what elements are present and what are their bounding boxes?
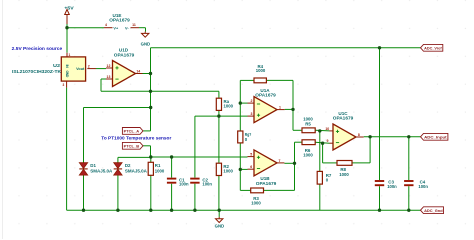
- wire C2 top: [194, 116, 196, 178]
- wire U1B -in: [240, 168, 247, 170]
- junction U1C feedback: [368, 135, 371, 138]
- wire C2 bottom: [194, 184, 196, 211]
- wire U1B out: [284, 162, 294, 164]
- svg-text:SMAJ5.0A: SMAJ5.0A: [90, 168, 113, 173]
- svg-text:PTCL_A: PTCL_A: [124, 129, 140, 134]
- wire Vref top bus: [151, 47, 422, 49]
- wire Vref down to C3: [379, 48, 381, 180]
- resistor R8: [337, 161, 352, 166]
- junction ground rail x=195: [193, 209, 196, 212]
- junction C3 tap: [378, 46, 381, 49]
- wire R3/R6 vertical: [294, 142, 296, 190]
- pin 2 U2 Vout: [87, 68, 96, 70]
- wire +5V to U2: [66, 24, 68, 53]
- svg-text:1000: 1000: [223, 169, 233, 174]
- wire ADC out to C4: [408, 137, 410, 180]
- junction ground rail x=409: [407, 209, 410, 212]
- wire U1C out to ADC_Input: [364, 136, 421, 138]
- wire R4 to U1A out / R5: [292, 80, 294, 130]
- pin 6 U1B -in: [248, 168, 255, 170]
- wire vertical U1D output / PTCL_A line: [150, 48, 152, 131]
- wire R4 left: [240, 79, 254, 81]
- wire U1A out: [285, 108, 293, 110]
- svg-text:3: 3: [63, 83, 65, 87]
- wire C1 top: [171, 157, 173, 178]
- op-amp U1D: [113, 61, 136, 87]
- svg-text:2.5V Precision source: 2.5V Precision source: [12, 46, 63, 51]
- op-amp U1B: [254, 150, 277, 176]
- svg-text:SMAJ5.0A: SMAJ5.0A: [125, 168, 148, 173]
- junction C1: [170, 155, 173, 158]
- resistor R3: [251, 188, 264, 193]
- svg-text:1: 1: [69, 53, 71, 57]
- wire R6 right to pin9: [315, 142, 329, 143]
- resistor R1: [148, 162, 153, 175]
- svg-text:ISL21070CIH320Z-TK: ISL21070CIH320Z-TK: [12, 69, 62, 74]
- wire U2 GND down: [66, 88, 68, 211]
- wire R4 right: [266, 79, 293, 81]
- op-amp U1C: [333, 124, 356, 150]
- svg-text:ADC_Input: ADC_Input: [424, 134, 447, 139]
- svg-text:12: 12: [107, 64, 111, 68]
- junction PTCL_B R1 D2 node: [149, 155, 152, 158]
- wire feedback row to Ra: [101, 90, 219, 92]
- pin 1 U1A out: [277, 109, 285, 111]
- wire U1E V- down to GND: [145, 28, 147, 32]
- global label ADC_Vref: [421, 44, 443, 51]
- svg-text:1000: 1000: [155, 168, 165, 173]
- wire R3 right: [264, 189, 295, 191]
- svg-text:D2: D2: [125, 163, 131, 168]
- svg-text:OPA1679: OPA1679: [114, 52, 135, 57]
- junction U1D output: [149, 72, 152, 75]
- capacitor C2: [190, 179, 199, 183]
- junction Ra R2 pin3 node: [217, 114, 220, 117]
- pin 5 U1B +in: [248, 156, 255, 158]
- wire Rg lower: [239, 143, 241, 170]
- junction R6 pin9 node: [321, 142, 324, 145]
- junction D1 branch: [149, 106, 152, 109]
- capacitor C4: [404, 181, 413, 185]
- wire C4 bottom: [408, 186, 410, 210]
- junction U1A output: [291, 108, 294, 111]
- svg-text:1000: 1000: [256, 68, 266, 73]
- wire D2 branch: [118, 156, 151, 158]
- svg-text:D1: D1: [90, 163, 96, 168]
- svg-text:+5V: +5V: [64, 5, 73, 10]
- pin 2 U1A -in: [248, 102, 255, 104]
- svg-text:2: 2: [251, 99, 253, 103]
- wire D2 to rail: [117, 175, 119, 210]
- global label ADC_Gnd: [421, 207, 444, 214]
- wire C1 bottom: [171, 184, 173, 211]
- pin 4 U1E V+: [104, 27, 113, 29]
- wire R1 bottom: [150, 175, 152, 210]
- pin 9 U1C -in: [330, 142, 334, 144]
- wire GND stub: [218, 210, 220, 217]
- resistor Rg: [238, 131, 243, 143]
- wire U1A +in row: [195, 115, 248, 117]
- svg-text:1000: 1000: [339, 172, 349, 177]
- wire U1D output: [143, 73, 151, 75]
- svg-text:ADC_Gnd: ADC_Gnd: [424, 208, 443, 213]
- global label ADC_Input: [421, 133, 448, 140]
- op-amp U1A: [254, 97, 277, 123]
- svg-text:OPA1679: OPA1679: [333, 116, 354, 121]
- svg-text:GND: GND: [215, 224, 225, 229]
- wire R1 top: [150, 157, 152, 162]
- wire PTCL_B: [143, 145, 151, 147]
- junction ground rail x=84: [82, 209, 85, 212]
- junction +5V / V+: [65, 26, 68, 29]
- pin 11 U1E V-: [131, 27, 140, 29]
- svg-text:10: 10: [325, 127, 329, 131]
- capacitor C3: [375, 181, 384, 185]
- svg-text:7: 7: [279, 159, 281, 163]
- svg-text:14: 14: [136, 69, 140, 73]
- resistor Ra: [216, 98, 221, 110]
- svg-text:3: 3: [251, 112, 253, 116]
- wire R2 bottom: [218, 176, 220, 211]
- pin 12 U1D +in: [106, 67, 113, 69]
- wire D1 to ground rail: [83, 175, 85, 210]
- wire to R8 left: [323, 162, 337, 164]
- ground GND bottom: [216, 217, 223, 223]
- global label PTCL_A: [122, 128, 143, 135]
- svg-text:R5: R5: [305, 122, 311, 127]
- wire PTCL_B down: [150, 146, 152, 157]
- svg-text:1000: 1000: [303, 152, 313, 157]
- junction R5 pin10 node: [318, 129, 321, 132]
- svg-text:100n: 100n: [418, 184, 428, 189]
- svg-text:1000: 1000: [224, 104, 234, 109]
- wire PTCL_A: [143, 130, 151, 132]
- wire U1D feedback left: [101, 78, 106, 80]
- pin 7 U1B out: [277, 162, 284, 164]
- wire feedback down: [100, 79, 102, 91]
- pin 13 U1D -in: [106, 78, 113, 80]
- svg-text:9: 9: [327, 139, 329, 143]
- svg-text:PTCL_B: PTCL_B: [124, 143, 140, 148]
- power +5V symbol: [65, 10, 70, 25]
- diode D1 TVS: [79, 163, 87, 175]
- svg-text:Vout: Vout: [76, 67, 85, 71]
- wire U2 Vout to U1D +in: [96, 68, 106, 70]
- pin 3 U1A +in: [248, 115, 255, 117]
- wire R3 left down: [239, 169, 241, 190]
- junction ground rail x=219: [218, 209, 221, 212]
- junction ground rail x=172: [170, 209, 173, 212]
- junction R4 Rg pin2 node: [239, 101, 242, 104]
- wire R8 right: [352, 162, 370, 164]
- wire U1E V- elbow: [139, 27, 146, 29]
- svg-text:5: 5: [250, 153, 252, 157]
- pin 3 U2 GND: [66, 81, 68, 88]
- wire to R6 left: [295, 141, 303, 143]
- resistor R7: [317, 171, 322, 184]
- wire D1 branch down: [83, 108, 85, 163]
- pin 10 U1C +in: [330, 130, 334, 132]
- pin 1 U2 IN: [66, 53, 68, 57]
- svg-text:OPA1679: OPA1679: [255, 92, 276, 97]
- svg-text:8: 8: [358, 133, 360, 137]
- resistor R2: [216, 163, 221, 175]
- wire R3 left: [240, 189, 250, 191]
- svg-text:13: 13: [107, 75, 111, 79]
- wire R7 bottom: [319, 184, 321, 210]
- wire U1A -in: [240, 102, 247, 104]
- junction feedback line: [149, 90, 152, 93]
- wire R5/R7 vertical: [319, 131, 321, 172]
- svg-text:GND: GND: [141, 41, 151, 46]
- junction C4 tap: [407, 135, 410, 138]
- pin 8 U1C out: [356, 136, 364, 138]
- wire Ra top stub: [218, 91, 220, 98]
- svg-text:1000: 1000: [251, 201, 261, 206]
- svg-text:To PT1000 Temperature sensor: To PT1000 Temperature sensor: [101, 136, 171, 141]
- svg-text:4: 4: [105, 23, 107, 27]
- junction Rg R3 pin6 node: [239, 168, 242, 171]
- svg-text:U2: U2: [53, 63, 61, 68]
- svg-text:100n: 100n: [179, 182, 189, 187]
- resistor R4: [254, 78, 266, 83]
- resistor R5: [302, 128, 315, 133]
- svg-text:OPA1679: OPA1679: [109, 18, 130, 23]
- svg-text:2: 2: [88, 64, 90, 68]
- wire ground rail: [67, 209, 421, 211]
- global label PTCL_B: [122, 142, 143, 149]
- regulator U2 ISL21070 box: [61, 57, 85, 81]
- junction ground rail x=380: [378, 209, 381, 212]
- svg-text:11: 11: [132, 23, 136, 27]
- wire D1 branch horizontal: [84, 107, 151, 109]
- wire R8 up to out: [369, 137, 371, 163]
- junction ground rail x=118: [116, 209, 119, 212]
- svg-text:1000: 1000: [303, 116, 313, 121]
- wire R4/Rg vertical upper: [239, 80, 241, 131]
- svg-text:V+: V+: [113, 26, 119, 30]
- ground GND under U1E: [142, 32, 149, 38]
- svg-text:1: 1: [279, 105, 281, 109]
- junction U1B output: [293, 162, 296, 165]
- svg-text:OPA1679: OPA1679: [256, 181, 277, 186]
- svg-text:100n: 100n: [202, 182, 212, 187]
- wire to R5 left: [293, 129, 302, 131]
- capacitor C1: [167, 179, 176, 183]
- pin 14 U1D out: [136, 73, 143, 75]
- svg-text:6: 6: [250, 165, 252, 169]
- wire pin9 node down: [322, 143, 324, 163]
- wire +5V to U1E V+: [67, 27, 104, 29]
- svg-text:100n: 100n: [387, 184, 397, 189]
- diode D2 TVS: [114, 163, 122, 175]
- wire D2 top: [117, 157, 119, 162]
- wire Ra to R2: [218, 110, 220, 163]
- resistor R6: [302, 140, 315, 145]
- wire C3 bottom: [379, 186, 381, 210]
- svg-text:GND: GND: [65, 71, 69, 78]
- junction ground rail x=151: [149, 209, 152, 212]
- wire U1B +in row: [151, 156, 248, 158]
- wire R5 right to pin10: [315, 129, 329, 132]
- svg-text:ADC_Vref: ADC_Vref: [424, 45, 442, 50]
